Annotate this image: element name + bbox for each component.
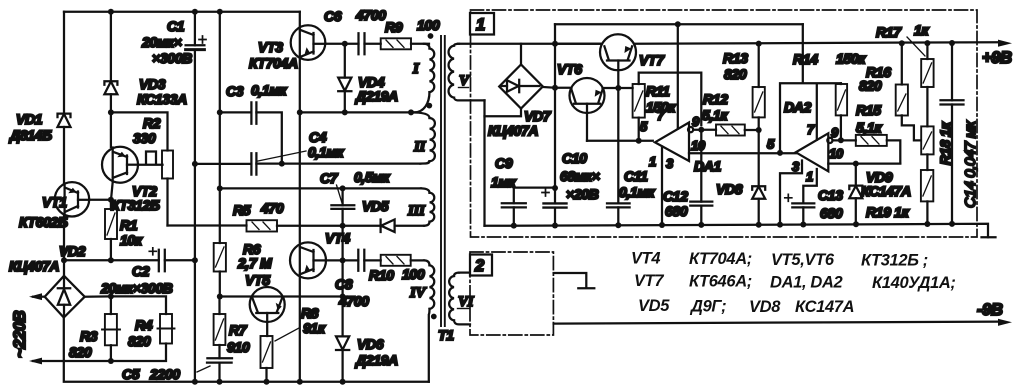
svg-text:2200: 2200 bbox=[149, 366, 180, 382]
capacitor C7 0,5мк bbox=[320, 169, 390, 226]
transformer T1 core bbox=[441, 36, 445, 326]
capacitor C6 4700 bbox=[324, 7, 386, 54]
node C2 row junctions bbox=[61, 257, 67, 263]
capacitor C2 20мк×300В bbox=[100, 248, 195, 296]
svg-text:470: 470 bbox=[260, 200, 284, 216]
node winding I phase dot bbox=[428, 33, 434, 39]
wire DA1 output to DA2 input bbox=[689, 152, 796, 154]
svg-text:C12: C12 bbox=[663, 188, 688, 204]
wire VT3-VT4 vertical line bbox=[299, 12, 301, 382]
svg-text:C9: C9 bbox=[495, 155, 513, 171]
resistor R2 330 bbox=[133, 115, 173, 226]
wire winding III top row bbox=[220, 187, 421, 189]
wire DA1 pin3 to rail bbox=[661, 147, 663, 226]
zener VD8 КС147А bbox=[716, 130, 765, 225]
svg-text:C8: C8 bbox=[335, 276, 353, 292]
output +9V arrow bbox=[998, 40, 1012, 47]
block 2 dash-dot border bbox=[470, 252, 553, 335]
svg-text:10: 10 bbox=[829, 146, 844, 161]
node C7 top junction bbox=[340, 185, 346, 191]
svg-text:VT4: VT4 bbox=[631, 250, 660, 268]
svg-text:C7: C7 bbox=[320, 170, 339, 186]
svg-text:R19 1к: R19 1к bbox=[866, 204, 910, 220]
zener VD1 Д814Б bbox=[9, 111, 71, 143]
svg-text:V: V bbox=[459, 73, 471, 89]
resistor R3 820 bbox=[69, 296, 120, 361]
svg-text:II: II bbox=[413, 139, 426, 155]
svg-text:-9В: -9В bbox=[977, 301, 1003, 319]
svg-text:2,7 М: 2,7 М bbox=[237, 255, 272, 271]
svg-text:R7: R7 bbox=[229, 322, 248, 338]
wire mains input top arrow bbox=[33, 296, 45, 298]
transformer T1 winding II bbox=[411, 112, 435, 163]
svg-text:5,1к: 5,1к bbox=[856, 120, 882, 136]
svg-text:5,1к: 5,1к bbox=[702, 107, 728, 123]
svg-text:1к: 1к bbox=[914, 22, 929, 38]
node bottom bus junctions bbox=[192, 379, 198, 385]
wire zero-volt rail bbox=[485, 224, 989, 238]
svg-text:Т1: Т1 bbox=[438, 327, 454, 343]
wire VT2 collector down to node bbox=[111, 182, 113, 200]
resistor R1 10к bbox=[105, 200, 143, 260]
op-amp DA2 К140УД1А bbox=[767, 99, 844, 184]
svg-text:III: III bbox=[407, 203, 426, 219]
svg-text:C10: C10 bbox=[562, 150, 587, 166]
capacitor C5 2200 bbox=[122, 358, 232, 382]
wire DA2 pin9 row bbox=[833, 139, 856, 141]
wire rail C3 column bbox=[219, 12, 221, 226]
node R3 bottom junction bbox=[108, 358, 114, 364]
svg-text:VD8: VD8 bbox=[749, 298, 781, 316]
node VD9 top junction bbox=[853, 161, 859, 167]
svg-text:R11: R11 bbox=[646, 83, 670, 99]
resistor R14 150к bbox=[793, 51, 866, 141]
svg-text:VD5: VD5 bbox=[362, 198, 389, 214]
svg-text:КТ646А;: КТ646А; bbox=[689, 273, 752, 291]
rheostat R18 1к bbox=[921, 121, 953, 170]
svg-text:0,1мк: 0,1мк bbox=[308, 144, 344, 160]
wire bridge minus jog bbox=[485, 109, 522, 117]
wire VT6 base row to DA1 input bbox=[587, 140, 653, 142]
resistor R4 820 bbox=[111, 314, 175, 361]
diode VD6 Д219А bbox=[336, 260, 398, 381]
svg-text:R10: R10 bbox=[369, 267, 394, 283]
transformer T1 winding IV bbox=[409, 260, 434, 381]
transistor VT2 КТ312Б bbox=[102, 147, 160, 213]
svg-text:C4: C4 bbox=[309, 129, 327, 145]
node R14 bottom junction bbox=[838, 137, 844, 143]
wire top horizontal bus bbox=[64, 11, 300, 13]
wire bridge plus row to VT6 bbox=[543, 86, 572, 89]
wire C7-C8 link vertical bbox=[341, 226, 343, 261]
svg-text:5: 5 bbox=[640, 119, 648, 134]
svg-text:×300В: ×300В bbox=[152, 50, 192, 66]
svg-text:КЦ407А: КЦ407А bbox=[488, 123, 538, 139]
svg-text:VD2: VD2 bbox=[59, 243, 86, 259]
svg-text:VD6: VD6 bbox=[357, 336, 384, 352]
node C3 drop junction bbox=[279, 161, 285, 167]
svg-text:150к: 150к bbox=[836, 51, 866, 67]
wire raw supply column x555 bbox=[554, 24, 556, 188]
wire DA2 pin3 jog to rail bbox=[780, 161, 802, 225]
wire bridge minus to bottom bus bbox=[64, 318, 429, 382]
node top-left junctions bbox=[108, 9, 114, 15]
rectifier bridge VD2 КЦ407А bbox=[9, 243, 86, 318]
transistor VT7 КТ646А bbox=[600, 34, 665, 88]
svg-text:VT1: VT1 bbox=[42, 194, 67, 210]
wire VT3 base to C6 node bbox=[325, 43, 358, 45]
svg-text:100: 100 bbox=[402, 266, 425, 282]
node C8-VD6 junction bbox=[340, 257, 346, 263]
wire bridge top to V-top bus bbox=[520, 44, 522, 65]
svg-text:VD1: VD1 bbox=[16, 111, 43, 127]
svg-text:0,1мк: 0,1мк bbox=[251, 82, 287, 98]
block 1 label box bbox=[470, 13, 494, 35]
wire VD3 node down to VT2 emitter bbox=[110, 112, 112, 147]
svg-text:DA2: DA2 bbox=[784, 99, 812, 115]
svg-text:3: 3 bbox=[666, 156, 674, 171]
node VT7 base junction bbox=[615, 85, 621, 91]
wire VD2 node horizontal bbox=[64, 259, 159, 261]
wire VT2 base to R2 side with jog bbox=[138, 152, 162, 165]
resistor R6 2,7М bbox=[214, 226, 272, 297]
svg-text:R3: R3 bbox=[80, 328, 98, 344]
svg-text:R15: R15 bbox=[856, 102, 881, 118]
node VT5 row to VD6 line junction bbox=[340, 294, 346, 300]
svg-text:C13: C13 bbox=[818, 187, 843, 203]
capacitor C11 0,1мк bbox=[607, 88, 655, 224]
wire winding V top to bridge and VT7 bbox=[458, 43, 602, 45]
resistor R12 5,1к bbox=[702, 91, 759, 136]
svg-text:820: 820 bbox=[69, 344, 92, 360]
wire winding I-II tap row bbox=[300, 111, 411, 113]
transistor VT1 КТ602Б bbox=[19, 182, 89, 230]
svg-text:1: 1 bbox=[649, 154, 656, 169]
wire VT4 base to C8 node bbox=[326, 259, 358, 261]
svg-text:0,5мк: 0,5мк bbox=[354, 169, 390, 185]
op-amp DA1 К140УД1А bbox=[640, 108, 722, 174]
wire DA2 output row bbox=[828, 162, 900, 164]
svg-text:0,1мк: 0,1мк bbox=[619, 184, 655, 200]
ground rail end tick bbox=[982, 236, 996, 238]
svg-text:820: 820 bbox=[128, 333, 151, 349]
svg-text:4700: 4700 bbox=[355, 7, 386, 23]
node DA2 input junction bbox=[777, 150, 783, 156]
node top rail junction bbox=[675, 21, 681, 27]
svg-text:VI: VI bbox=[458, 294, 475, 310]
node R6-R7-VT5 junction bbox=[217, 294, 223, 300]
block 1 dash-dot border bbox=[471, 10, 978, 237]
svg-text:R5: R5 bbox=[233, 202, 251, 218]
wire bridge plus row bbox=[85, 296, 166, 314]
transformer T1 winding I bbox=[411, 44, 434, 113]
node rail-163 junction bbox=[192, 161, 198, 167]
svg-text:КС147А: КС147А bbox=[795, 298, 854, 316]
svg-text:R9: R9 bbox=[385, 19, 403, 35]
node VT3 emitter junction bbox=[297, 109, 303, 115]
node x555 C10 junction bbox=[552, 185, 558, 191]
svg-text:КТ704А;: КТ704А; bbox=[689, 250, 752, 268]
output -9V line and arrow bbox=[554, 322, 999, 324]
svg-text:R14: R14 bbox=[793, 51, 818, 67]
svg-text:7: 7 bbox=[657, 108, 665, 123]
svg-text:1мк: 1мк bbox=[491, 174, 516, 190]
capacitor C12 680 bbox=[663, 130, 712, 225]
node pin9 junction bbox=[698, 127, 704, 133]
capacitor C4 0,1мк bbox=[195, 129, 420, 175]
svg-text:КТ312Б: КТ312Б bbox=[111, 197, 160, 213]
resistor R7 910 bbox=[214, 297, 250, 359]
node VT1-R1-VT2 junction bbox=[108, 197, 114, 203]
node R11 bottom junction bbox=[636, 138, 642, 144]
svg-text:1: 1 bbox=[806, 169, 813, 184]
svg-text:1: 1 bbox=[476, 16, 485, 34]
resistor R17 1к bbox=[876, 22, 934, 126]
svg-text:VT5,VT6: VT5,VT6 bbox=[771, 251, 835, 269]
wire top rail raw supply bbox=[555, 23, 803, 25]
svg-text:+9В: +9В bbox=[982, 49, 1012, 67]
resistor R19 1к bbox=[866, 170, 933, 224]
svg-text:Д814Б: Д814Б bbox=[9, 127, 52, 143]
svg-text:R17: R17 bbox=[876, 24, 902, 40]
capacitor C13 680 bbox=[785, 187, 843, 225]
rectifier bridge VD7 КЦ407А bbox=[488, 65, 552, 139]
svg-text:К140УД1А;: К140УД1А; bbox=[872, 274, 956, 292]
capacitor C14 0,047мк bbox=[941, 43, 980, 224]
svg-text:C2: C2 bbox=[132, 263, 150, 279]
node rail-188 junction bbox=[217, 185, 223, 191]
svg-text:C5: C5 bbox=[122, 366, 140, 382]
node R17 top on +9V rail bbox=[924, 40, 930, 46]
wire DA1 pin9 row bbox=[693, 129, 716, 131]
svg-text:IV: IV bbox=[409, 285, 427, 301]
svg-text:680: 680 bbox=[665, 203, 688, 219]
svg-text:VT6: VT6 bbox=[557, 61, 582, 77]
transformer T1 winding VI bbox=[449, 273, 475, 325]
transformer T1 winding V bbox=[449, 44, 485, 101]
svg-text:R4: R4 bbox=[135, 317, 153, 333]
transformer T1 winding III bbox=[407, 188, 434, 225]
node R13 top on +9V rail bbox=[756, 41, 762, 47]
node bridge plus crossing junction bbox=[552, 85, 558, 91]
node VD3 bottom junction bbox=[108, 109, 114, 115]
svg-text:R8: R8 bbox=[301, 305, 319, 321]
svg-text:VT4: VT4 bbox=[325, 230, 350, 246]
wire left column bbox=[63, 12, 65, 276]
wire DA1 pin7 supply bbox=[677, 24, 679, 128]
node x555 top junction bbox=[552, 41, 558, 47]
svg-text:10: 10 bbox=[691, 138, 706, 153]
svg-text:R13: R13 bbox=[723, 50, 748, 66]
svg-text:3: 3 bbox=[792, 159, 800, 174]
resistor R15 5,1к bbox=[856, 102, 901, 163]
resistor R16 820 bbox=[859, 43, 921, 140]
wire C9-C10 top link bbox=[514, 186, 555, 188]
wire VT5 collector-emitter row bbox=[220, 295, 343, 297]
svg-text:680: 680 bbox=[820, 205, 843, 221]
wire VD3 node to R2 top bbox=[111, 112, 168, 150]
svg-text:VD8: VD8 bbox=[716, 181, 743, 197]
svg-text:C3: C3 bbox=[226, 83, 244, 99]
wire DA2 pin1 jog to C13 bbox=[803, 169, 817, 203]
svg-text:100: 100 bbox=[417, 17, 440, 33]
resistor R11 150к bbox=[633, 73, 702, 141]
node tap I-II junction bbox=[408, 109, 414, 115]
svg-text:×20В: ×20В bbox=[566, 186, 599, 202]
resistor R9 100 bbox=[381, 17, 440, 49]
svg-text:2: 2 bbox=[474, 257, 484, 275]
svg-text:VT5: VT5 bbox=[245, 272, 270, 288]
node R12-R13 junction bbox=[756, 127, 762, 133]
capacitor C1 20мк×300В bbox=[141, 12, 206, 164]
wire rail C1 column lower bbox=[194, 164, 196, 382]
svg-text:C1: C1 bbox=[167, 18, 185, 34]
svg-text:9: 9 bbox=[692, 114, 700, 129]
svg-text:Д9Г;: Д9Г; bbox=[689, 298, 726, 316]
svg-text:VT7: VT7 bbox=[634, 272, 664, 290]
wire x555 to VT7 collector bbox=[555, 43, 602, 45]
capacitor C10 68мк×20В bbox=[542, 150, 600, 225]
resistor R8 91к bbox=[261, 305, 326, 382]
capacitor C8 4700 bbox=[335, 250, 381, 309]
wire supply runner to R14 and DA2 pin7 bbox=[780, 24, 841, 153]
zener VD3 КС133А bbox=[104, 12, 187, 113]
svg-text:910: 910 bbox=[227, 339, 250, 355]
node winding IV phase dot bbox=[431, 314, 437, 320]
zener VD9 КС147А bbox=[849, 164, 911, 225]
svg-text:КЦ407А: КЦ407А bbox=[9, 258, 59, 274]
transistor VT5 КТ312Б bbox=[245, 272, 285, 336]
resistor R13 820 bbox=[723, 44, 765, 130]
svg-text:DA1, DA2: DA1, DA2 bbox=[770, 274, 843, 292]
transistor VT4 КТ704А bbox=[290, 230, 350, 278]
svg-text:7: 7 bbox=[807, 122, 815, 137]
svg-text:~220В: ~220В bbox=[11, 310, 29, 358]
capacitor C9 1мк bbox=[491, 155, 526, 225]
wire VT6 emitter to base node bbox=[603, 87, 619, 89]
svg-text:I: I bbox=[412, 61, 420, 77]
wire VT7 base node to R11 bbox=[618, 87, 632, 89]
svg-text:VD5: VD5 bbox=[638, 297, 670, 315]
diode VD4 Д219А bbox=[338, 44, 398, 113]
svg-text:КТ704А: КТ704А bbox=[249, 55, 298, 71]
node winding II phase dot bbox=[426, 103, 432, 109]
svg-text:VD3: VD3 bbox=[139, 76, 166, 92]
svg-text:R18 1к: R18 1к bbox=[937, 121, 953, 165]
svg-text:Д219А: Д219А bbox=[355, 352, 398, 368]
svg-text:КС133А: КС133А bbox=[137, 91, 187, 107]
svg-text:DA1: DA1 bbox=[694, 158, 722, 174]
wire VT7 emitter to +9V rail bbox=[635, 42, 1000, 44]
node C14 top on +9V rail bbox=[949, 40, 955, 46]
transistor VT3 КТ704А bbox=[249, 25, 325, 71]
node C6-VD4 junction bbox=[342, 41, 348, 47]
svg-text:91к: 91к bbox=[303, 320, 326, 336]
svg-text:КТ602Б: КТ602Б bbox=[19, 214, 68, 230]
wire mains input bottom arrow bbox=[33, 360, 111, 362]
svg-text:КТ312Б ;: КТ312Б ; bbox=[861, 252, 928, 270]
svg-text:VT7: VT7 bbox=[639, 52, 665, 68]
svg-text:КС147А: КС147А bbox=[861, 183, 911, 199]
node zero rail junctions bbox=[511, 223, 517, 229]
svg-text:330: 330 bbox=[133, 130, 156, 146]
block 2 label box bbox=[470, 255, 492, 276]
resistor R5 470 bbox=[168, 200, 381, 232]
node VT4 base row junction bbox=[340, 223, 346, 229]
svg-text:820: 820 bbox=[724, 66, 747, 82]
svg-text:68мк×: 68мк× bbox=[560, 168, 600, 184]
svg-text:R12: R12 bbox=[703, 91, 728, 107]
svg-text:Д219А: Д219А bbox=[355, 88, 398, 104]
diode VD5 Д9Г bbox=[362, 198, 424, 232]
node rail-C3 junction bbox=[217, 109, 223, 115]
transistor VT6 КТ312Б bbox=[557, 61, 605, 141]
wire VT1 collector to R1 node bbox=[89, 199, 111, 201]
ground common stub bbox=[554, 273, 595, 288]
svg-text:20мк×: 20мк× bbox=[141, 34, 182, 50]
svg-text:820: 820 bbox=[859, 78, 882, 94]
svg-text:C6: C6 bbox=[324, 8, 342, 24]
svg-text:5: 5 bbox=[767, 137, 775, 152]
svg-text:VT3: VT3 bbox=[258, 39, 283, 55]
svg-text:C11: C11 bbox=[624, 168, 648, 184]
svg-text:10к: 10к bbox=[120, 232, 143, 248]
capacitor C3 0,1мк bbox=[220, 82, 288, 164]
node VD4 bottom junction bbox=[342, 109, 348, 115]
node R16 top on +9V rail bbox=[899, 40, 905, 46]
wire winding V bottom drop bbox=[483, 100, 485, 225]
svg-text:9: 9 bbox=[831, 125, 839, 140]
svg-text:R2: R2 bbox=[143, 115, 161, 131]
svg-text:R1: R1 bbox=[120, 217, 138, 233]
resistor R10 100 bbox=[369, 255, 425, 283]
node R3 top junction bbox=[108, 293, 114, 299]
